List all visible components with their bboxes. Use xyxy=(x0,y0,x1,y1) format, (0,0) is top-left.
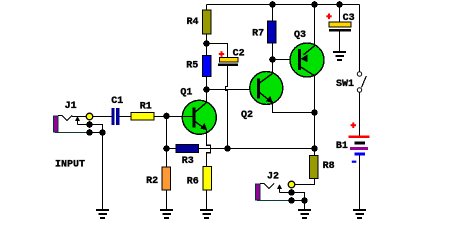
ground under battery xyxy=(353,209,366,219)
wire J2 ground drop xyxy=(304,201,306,211)
label C3 plus xyxy=(326,14,331,20)
node R3 left junction xyxy=(163,145,170,152)
svg-text:SW1: SW1 xyxy=(336,79,354,90)
battery B1 xyxy=(349,136,370,156)
resistor R2 xyxy=(162,167,171,190)
switch SW1 xyxy=(357,72,366,92)
node Q3 base junction xyxy=(269,56,276,63)
wire rail to C3 xyxy=(339,5,341,23)
node Q1 collector junction xyxy=(203,86,210,93)
wire R2 to ground xyxy=(166,190,168,210)
capacitor C1 xyxy=(112,108,120,125)
wire junction to R2 xyxy=(166,149,168,168)
wire R6 to ground xyxy=(206,190,208,210)
capacitor C3 xyxy=(329,22,351,32)
svg-text:Q3: Q3 xyxy=(294,30,306,41)
wire SW1 to battery xyxy=(359,92,361,135)
ground under R2 xyxy=(160,209,173,219)
svg-text:C3: C3 xyxy=(343,13,355,24)
svg-text:R5: R5 xyxy=(186,61,198,72)
ground under J1 xyxy=(96,209,109,219)
node C2 bottom junction xyxy=(224,145,231,152)
jack J1 xyxy=(54,113,106,136)
resistor R7 xyxy=(268,21,277,43)
wire rail to R7 xyxy=(272,5,274,22)
svg-text:B1: B1 xyxy=(336,141,348,152)
wire Q2 base line xyxy=(207,89,258,91)
wire R1 junction down xyxy=(166,117,168,149)
wire R4 to R5 xyxy=(206,34,208,56)
node R7 rail junction xyxy=(269,1,276,8)
svg-text:C1: C1 xyxy=(111,96,123,107)
node C3 rail junction xyxy=(336,1,343,8)
transistor Q1 xyxy=(182,100,216,134)
wire C1 to R1 xyxy=(120,116,132,118)
transistor Q3 xyxy=(290,43,324,77)
wire Q1 collector up xyxy=(206,90,208,104)
node R4/R5/C2 junction xyxy=(203,40,210,47)
svg-text:C2: C2 xyxy=(233,49,245,60)
wire Q3 base xyxy=(273,59,299,61)
ground under C3 xyxy=(333,51,346,61)
svg-text:R7: R7 xyxy=(252,29,264,40)
resistor R6 xyxy=(203,167,212,191)
svg-text:J2: J2 xyxy=(267,171,279,182)
wire R8 to J2 xyxy=(295,179,315,185)
svg-text:Q2: Q2 xyxy=(241,110,253,121)
wire Q2 emitter to R8 junction xyxy=(273,101,315,113)
svg-text:R3: R3 xyxy=(182,156,194,167)
wire lower rail R3 to R8 junction xyxy=(167,148,315,150)
label C2 plus xyxy=(219,51,224,57)
capacitor C2 xyxy=(218,58,238,67)
wire Q1 emitter down with hop jog to R6 xyxy=(207,130,211,167)
wire R5 to Q1 collector node xyxy=(206,77,208,90)
wire R7 to Q3 base node and Q2 collector xyxy=(272,43,274,76)
node R8 top junction xyxy=(311,145,318,152)
svg-text:R6: R6 xyxy=(187,177,199,188)
resistor R1 xyxy=(131,113,154,121)
node R1 right junction xyxy=(163,113,170,120)
svg-text:Q1: Q1 xyxy=(180,87,192,98)
jack J2 xyxy=(256,181,308,204)
transistor Q2 xyxy=(250,72,283,105)
svg-text:R4: R4 xyxy=(187,17,199,28)
wire Q1 base from R1 xyxy=(154,116,193,118)
resistor R4 xyxy=(203,10,212,34)
node Q3 emitter rail junction xyxy=(311,1,318,8)
svg-text:INPUT: INPUT xyxy=(55,160,85,171)
wire rail to Q3 emitter xyxy=(314,5,316,47)
wire battery to ground xyxy=(359,156,361,210)
wire rail right drop to SW1 xyxy=(359,5,361,72)
wire J1 ground drop xyxy=(102,133,104,211)
resistor R3 xyxy=(176,145,199,153)
wire J1 to C1 xyxy=(93,116,112,118)
ground under J2 xyxy=(298,209,311,219)
wire rail drop to R4 xyxy=(206,5,208,11)
svg-text:J1: J1 xyxy=(65,101,77,112)
resistor R5 xyxy=(203,56,212,77)
ground under R6 xyxy=(200,209,213,219)
label B1 minus xyxy=(352,161,357,163)
svg-text:R2: R2 xyxy=(146,176,158,187)
svg-text:R1: R1 xyxy=(140,102,152,113)
wire C3 to ground xyxy=(339,32,341,53)
wire C2 bottom with hop jog xyxy=(226,66,228,148)
wire Q3 collector down to R8 xyxy=(314,76,316,156)
wire C2 top branch xyxy=(207,44,228,58)
resistor R8 xyxy=(310,156,319,179)
node Q2 emitter / Q3 collector junction xyxy=(311,109,318,116)
wire top supply rail xyxy=(207,4,360,6)
label B1 plus xyxy=(351,122,356,128)
svg-text:R8: R8 xyxy=(323,161,335,172)
